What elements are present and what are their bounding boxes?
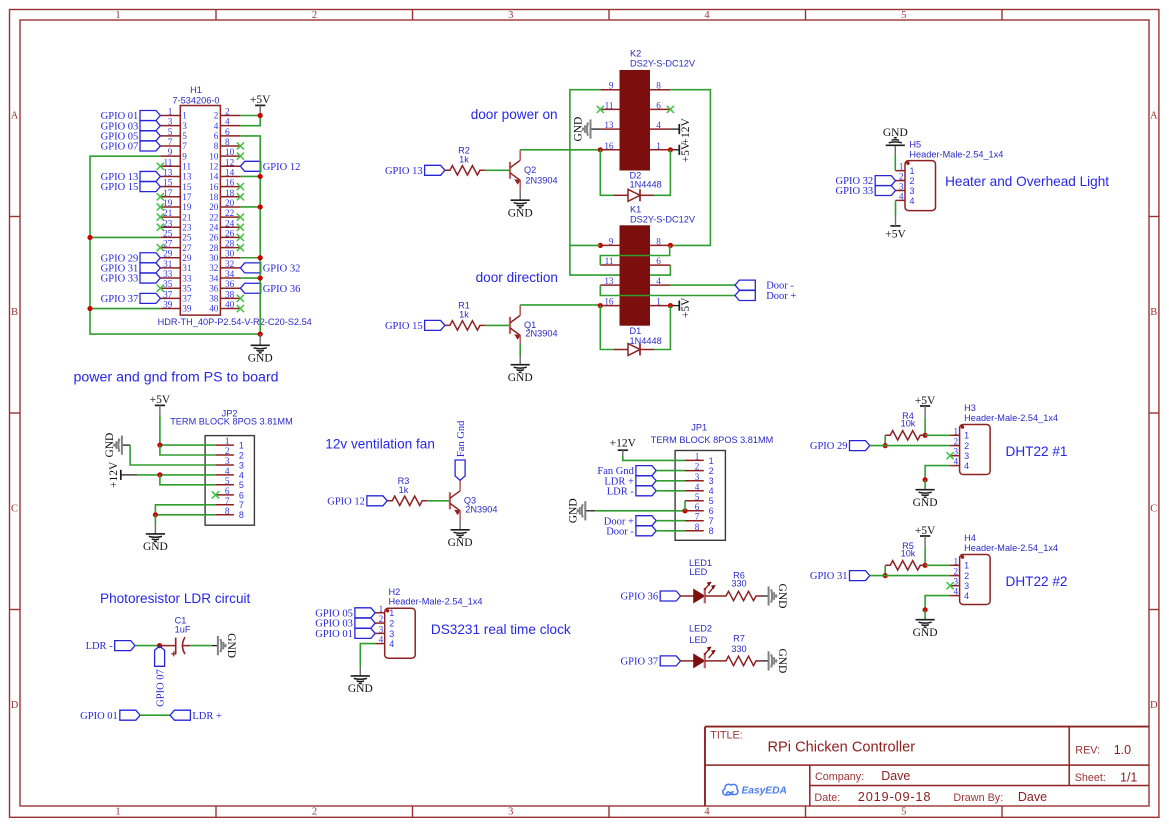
svg-text:2: 2 xyxy=(910,176,915,186)
K2 pin 13 xyxy=(600,128,619,130)
svg-text:26: 26 xyxy=(209,233,219,243)
svg-text:1N4448: 1N4448 xyxy=(630,336,662,346)
JP1 pin 1 xyxy=(685,459,704,461)
wire K1 pin4 to Door- xyxy=(670,284,735,286)
svg-text:Header-Male-2.54_1x4: Header-Male-2.54_1x4 xyxy=(964,413,1058,423)
net flag LDR + at JP1 xyxy=(636,476,656,486)
wire K1 pin13 to Door+ xyxy=(600,285,735,295)
svg-text:3: 3 xyxy=(379,624,384,634)
wire H5 pin4 to +5V xyxy=(895,200,897,215)
net flag GPIO 07 xyxy=(140,141,160,151)
svg-text:R7: R7 xyxy=(733,634,745,644)
connector H2 body xyxy=(385,608,416,658)
no-connect JP2 pin 6 xyxy=(212,491,219,498)
svg-text:8: 8 xyxy=(225,506,230,516)
junction ground H3 xyxy=(923,477,928,482)
svg-text:36: 36 xyxy=(225,279,235,289)
H1 pin 24 xyxy=(220,226,240,228)
wire R3 to Q3 base xyxy=(427,500,450,502)
svg-text:9: 9 xyxy=(182,151,187,161)
wire pin4 to ground xyxy=(925,466,950,480)
svg-text:3: 3 xyxy=(954,577,959,587)
svg-text:GND: GND xyxy=(448,537,473,549)
svg-text:LED2: LED2 xyxy=(689,624,712,634)
svg-text:2: 2 xyxy=(954,437,959,447)
JP2 pin 6 xyxy=(215,494,234,496)
svg-text:12: 12 xyxy=(209,162,219,172)
wire C1 to GND xyxy=(190,645,212,647)
wire GND to H5 pin1 xyxy=(894,155,896,171)
svg-text:330: 330 xyxy=(731,578,746,588)
H1 pin 29 xyxy=(160,257,180,259)
ground GND at R7 xyxy=(761,660,769,662)
svg-text:2: 2 xyxy=(389,619,394,629)
svg-text:+12V: +12V xyxy=(108,461,120,488)
svg-text:4: 4 xyxy=(954,457,959,467)
svg-text:19: 19 xyxy=(163,198,173,208)
svg-text:30: 30 xyxy=(209,253,219,263)
capacitor C1 xyxy=(160,645,176,647)
svg-text:1: 1 xyxy=(115,807,120,818)
svg-text:1k: 1k xyxy=(399,485,409,495)
svg-text:7: 7 xyxy=(239,500,244,510)
wire data to pin2 xyxy=(870,575,950,577)
no-connect H1 pin 22 xyxy=(237,214,244,221)
svg-text:8: 8 xyxy=(695,522,700,532)
svg-text:GPIO 36: GPIO 36 xyxy=(621,592,659,603)
svg-text:GPIO 15: GPIO 15 xyxy=(101,182,139,193)
H1 pin 36 xyxy=(220,287,240,289)
svg-text:4: 4 xyxy=(695,482,700,492)
wire K2 pin9 / K1 pin9 to K1 pin6 xyxy=(570,90,671,275)
no-connect H1 pin 8 xyxy=(237,142,244,149)
svg-text:Drawn By:: Drawn By: xyxy=(953,792,1003,804)
svg-text:4: 4 xyxy=(899,191,904,201)
svg-text:2: 2 xyxy=(709,466,714,476)
wire K1 pin9 to left rail xyxy=(570,244,600,246)
svg-text:9: 9 xyxy=(168,147,173,157)
svg-text:37: 37 xyxy=(182,294,192,304)
svg-text:power and gnd from PS to board: power and gnd from PS to board xyxy=(74,370,279,386)
svg-text:GND: GND xyxy=(248,353,273,365)
svg-text:GND: GND xyxy=(225,633,237,658)
title block frame xyxy=(705,727,1149,806)
no-connect H1 pin 40 xyxy=(237,305,244,312)
net flag GPIO 01 xyxy=(140,111,160,121)
resistor R4 xyxy=(885,431,925,440)
wire K1 pin16 to D1 anode xyxy=(600,306,614,350)
H1 pin 25 xyxy=(160,236,180,238)
net flag GPIO 29 xyxy=(850,441,870,451)
svg-text:4: 4 xyxy=(379,635,384,645)
svg-text:DHT22 #1: DHT22 #1 xyxy=(1006,444,1068,459)
svg-text:28: 28 xyxy=(225,239,235,249)
net flag Door - xyxy=(735,280,755,290)
junction K2 pin16 xyxy=(598,147,603,152)
LED LED2 xyxy=(681,660,694,662)
svg-text:1: 1 xyxy=(954,426,959,436)
H1 pin 40 xyxy=(220,308,240,310)
svg-text:14: 14 xyxy=(225,167,235,177)
svg-text:30: 30 xyxy=(225,249,235,259)
H3 pin 3 xyxy=(950,455,960,457)
svg-text:2: 2 xyxy=(214,111,219,121)
connector H5 body xyxy=(905,161,936,211)
svg-text:26: 26 xyxy=(225,228,235,238)
ground GND below H2 xyxy=(359,666,361,676)
svg-text:DHT22 #2: DHT22 #2 xyxy=(1006,574,1068,589)
wire +5V to H3 xyxy=(924,417,926,435)
svg-text:LED: LED xyxy=(689,567,707,577)
wire K2 pin8 to K1 pin8 xyxy=(670,90,710,246)
svg-text:1: 1 xyxy=(379,604,384,614)
svg-text:2: 2 xyxy=(695,462,700,472)
H1 pin 37 xyxy=(160,297,180,299)
JP1 pin 6 xyxy=(685,510,704,512)
H1 pin 35 xyxy=(160,287,180,289)
svg-text:LDR +: LDR + xyxy=(192,711,222,722)
connector H2 origin mark xyxy=(386,609,389,612)
svg-text:Photoresistor LDR circuit: Photoresistor LDR circuit xyxy=(100,591,251,606)
connector JP2 body xyxy=(205,436,254,526)
connector H1 body xyxy=(180,106,220,316)
svg-text:22: 22 xyxy=(209,212,219,222)
wire data to pin2 xyxy=(870,445,950,447)
svg-text:9: 9 xyxy=(609,81,614,91)
junction K1 pin16 xyxy=(598,303,603,308)
H3 pin 1 xyxy=(950,434,960,436)
wire R2 to Q2 base xyxy=(485,169,510,171)
wire Door- to JP1 pin8 xyxy=(656,530,685,532)
svg-text:1: 1 xyxy=(225,436,230,446)
svg-text:35: 35 xyxy=(182,283,192,293)
net flag GPIO 13 xyxy=(425,165,445,175)
svg-text:33: 33 xyxy=(182,273,192,283)
svg-text:A: A xyxy=(11,111,19,122)
svg-text:6: 6 xyxy=(214,131,219,141)
wire +5V to pin1 xyxy=(925,564,950,566)
svg-text:Door +: Door + xyxy=(766,291,796,302)
power +12V at K2 pin4 xyxy=(670,128,679,130)
junction K2 pin1 xyxy=(668,147,673,152)
H1 pin 34 xyxy=(220,277,240,279)
junction data line xyxy=(883,443,888,448)
wire +12V to JP1 pin1 xyxy=(623,455,685,460)
wire pullup to data xyxy=(884,435,886,445)
ground GND at Q3 xyxy=(459,520,461,530)
svg-text:38: 38 xyxy=(225,289,235,299)
H1 pin 6 xyxy=(220,135,240,137)
svg-text:16: 16 xyxy=(225,178,235,188)
svg-text:31: 31 xyxy=(182,263,192,273)
svg-text:+5V: +5V xyxy=(915,395,936,407)
svg-text:door direction: door direction xyxy=(476,270,558,285)
power +5V above JP2 xyxy=(155,404,165,406)
svg-text:3: 3 xyxy=(964,451,969,461)
H1 pin 32 xyxy=(220,267,240,269)
JP2 pin 8 xyxy=(215,514,234,516)
svg-text:29: 29 xyxy=(163,249,173,259)
H4 pin 1 xyxy=(950,564,960,566)
wire GND to JP1 pin6 xyxy=(595,510,685,512)
resistor R5 xyxy=(885,561,925,570)
resistor R3 xyxy=(387,496,427,505)
svg-text:5: 5 xyxy=(901,10,906,21)
svg-text:4: 4 xyxy=(964,461,969,471)
JP1 pin 7 xyxy=(685,520,704,522)
svg-text:20: 20 xyxy=(209,202,219,212)
svg-text:7: 7 xyxy=(225,496,230,506)
net flag Door + at JP1 xyxy=(636,516,656,526)
svg-text:4: 4 xyxy=(709,486,714,496)
svg-text:GPIO 37: GPIO 37 xyxy=(101,294,139,305)
svg-text:Date:: Date: xyxy=(814,792,840,804)
svg-text:13: 13 xyxy=(604,276,614,286)
svg-text:H2: H2 xyxy=(389,587,401,597)
H1 pin 2 xyxy=(220,115,240,117)
svg-text:25: 25 xyxy=(182,233,192,243)
junction GND rail pin 39 xyxy=(87,306,92,311)
svg-text:7: 7 xyxy=(182,141,187,151)
wire +5V to pin1 xyxy=(925,434,950,436)
svg-text:3: 3 xyxy=(168,117,173,127)
svg-text:31: 31 xyxy=(163,259,173,269)
svg-text:23: 23 xyxy=(163,218,173,228)
svg-text:GPIO 33: GPIO 33 xyxy=(836,186,874,197)
junction K1 pin9 xyxy=(598,243,603,248)
wire JP2 pins7-8 xyxy=(155,505,215,515)
svg-text:GPIO 12: GPIO 12 xyxy=(263,162,301,173)
svg-text:1: 1 xyxy=(910,166,915,176)
ground GND at Q2 xyxy=(519,189,521,200)
wire Q1 collector to K1 pin16 xyxy=(520,304,600,306)
relay K1 body xyxy=(620,225,651,325)
ground GND H3 xyxy=(916,489,935,491)
K2 pin 11 xyxy=(600,108,619,110)
H1 pin 5 xyxy=(160,135,180,137)
svg-text:2: 2 xyxy=(954,567,959,577)
no-connect H1 pin 18 xyxy=(237,193,244,200)
svg-text:2N3904: 2N3904 xyxy=(525,176,557,186)
H2 pin 2 xyxy=(375,622,385,624)
transistor Q2 xyxy=(509,162,511,179)
wire JP2 pin5 xyxy=(160,475,216,485)
svg-text:C: C xyxy=(11,504,18,515)
svg-text:8: 8 xyxy=(656,236,661,246)
svg-text:D: D xyxy=(1150,700,1158,711)
svg-text:GPIO 36: GPIO 36 xyxy=(263,284,301,295)
wire Door+ to JP1 pin7 xyxy=(656,520,685,522)
H1 pin 28 xyxy=(220,247,240,249)
H1 pin 8 xyxy=(220,145,240,147)
K1 pin 6 xyxy=(650,264,670,266)
junction JP2 +5V xyxy=(157,443,162,448)
net flag GPIO 05 xyxy=(355,608,375,618)
H1 pin 33 xyxy=(160,277,180,279)
ground GND below H1 xyxy=(259,334,261,345)
svg-text:16: 16 xyxy=(604,141,614,151)
ground GND left of JP2 xyxy=(122,444,130,446)
wire +12V to JP2 pin4 xyxy=(137,474,215,476)
JP2 pin 3 xyxy=(215,464,234,466)
svg-text:4: 4 xyxy=(954,587,959,597)
wire pin4 to ground xyxy=(925,596,950,610)
no-connect H1 pin 28 xyxy=(237,244,244,251)
wire GND to JP2 pin3 xyxy=(130,445,215,465)
svg-text:27: 27 xyxy=(182,243,192,253)
svg-text:6: 6 xyxy=(709,506,714,516)
K1 pin 1 xyxy=(650,305,670,307)
H1 pin 3 xyxy=(160,125,180,127)
svg-text:3: 3 xyxy=(239,460,244,470)
H1 pin 20 xyxy=(220,206,240,208)
svg-text:2: 2 xyxy=(239,450,244,460)
wire K2 pin16 to D2 anode xyxy=(600,150,614,196)
no-connect H1 pin 19 xyxy=(157,203,164,210)
svg-text:Dave: Dave xyxy=(1018,790,1047,804)
net flag LDR - at JP1 xyxy=(636,486,656,496)
no-connect H1 pin 10 xyxy=(237,153,244,160)
svg-text:+5V: +5V xyxy=(150,394,171,406)
H1 pin 19 xyxy=(160,206,180,208)
K1 pin 13 xyxy=(600,284,619,286)
svg-text:6: 6 xyxy=(656,100,661,110)
svg-text:8: 8 xyxy=(239,510,244,520)
H4 pin 4 xyxy=(950,595,960,597)
svg-text:4: 4 xyxy=(389,639,394,649)
net flag GPIO 37 xyxy=(140,293,160,303)
svg-text:38: 38 xyxy=(209,294,219,304)
svg-text:3: 3 xyxy=(182,121,187,131)
svg-text:3: 3 xyxy=(899,182,904,192)
K2 pin 6 xyxy=(650,108,670,110)
svg-text:LDR -: LDR - xyxy=(86,641,114,652)
K2 pin 4 xyxy=(650,128,670,130)
H1 pin 18 xyxy=(220,196,240,198)
svg-text:1: 1 xyxy=(964,431,969,441)
svg-text:7: 7 xyxy=(709,516,714,526)
ground GND above H5 xyxy=(886,144,905,146)
K2 pin 8 xyxy=(650,89,670,91)
net flag GPIO 01 xyxy=(355,628,375,638)
net flag GPIO 12 at fan xyxy=(367,496,387,506)
svg-text:3: 3 xyxy=(389,629,394,639)
svg-text:1: 1 xyxy=(115,10,120,21)
net flag GPIO 32 at H5 xyxy=(875,176,895,186)
H5 pin 2 xyxy=(896,180,906,182)
H1 pin 26 xyxy=(220,236,240,238)
svg-text:11: 11 xyxy=(182,162,191,172)
diode D2 xyxy=(614,194,628,196)
wire GND rail xyxy=(90,136,260,334)
net flag GPIO 12 xyxy=(240,161,260,171)
svg-text:7: 7 xyxy=(695,512,700,522)
svg-text:GND: GND xyxy=(883,127,908,139)
svg-text:1: 1 xyxy=(168,107,173,117)
svg-text:GPIO 13: GPIO 13 xyxy=(385,166,423,177)
svg-text:Heater and Overhead Light: Heater and Overhead Light xyxy=(945,174,1109,189)
svg-text:10k: 10k xyxy=(901,548,916,558)
svg-text:8: 8 xyxy=(656,81,661,91)
svg-text:7: 7 xyxy=(168,137,173,147)
svg-text:10: 10 xyxy=(225,147,235,157)
svg-text:5: 5 xyxy=(709,496,714,506)
H1 pin 31 xyxy=(160,267,180,269)
svg-text:39: 39 xyxy=(182,304,192,314)
junction GND rail pin 34 xyxy=(258,275,263,280)
svg-text:GPIO 33: GPIO 33 xyxy=(101,274,139,285)
no-connect K2 pin 11 xyxy=(597,106,604,113)
svg-text:1k: 1k xyxy=(459,155,469,165)
no-connect H1 pin 26 xyxy=(237,234,244,241)
svg-text:+5V: +5V xyxy=(250,94,271,106)
junction K1 pin8 xyxy=(668,243,673,248)
svg-text:7-534206-0: 7-534206-0 xyxy=(173,95,220,105)
svg-text:24: 24 xyxy=(209,222,219,232)
connector H3 body xyxy=(960,425,991,475)
no-connect H4 pin 3 xyxy=(947,582,954,589)
svg-text:5: 5 xyxy=(901,807,906,818)
junction ground H4 xyxy=(923,607,928,612)
svg-text:K2: K2 xyxy=(630,49,641,59)
svg-text:GND: GND xyxy=(143,541,168,553)
connector JP1 body xyxy=(675,451,725,541)
K1 pin 8 xyxy=(650,244,670,246)
wire GPIO01 to LDR+ xyxy=(140,714,170,716)
junction GND rail bottom xyxy=(258,332,263,337)
wire Q2 collector to K2 pin16 xyxy=(520,149,600,151)
svg-text:H1: H1 xyxy=(190,85,202,95)
H1 pin 4 xyxy=(220,125,240,127)
svg-text:32: 32 xyxy=(209,263,219,273)
svg-text:1: 1 xyxy=(899,162,904,172)
ground GND below JP2 xyxy=(154,525,156,534)
ground GND at R6 xyxy=(761,595,769,597)
svg-text:2: 2 xyxy=(379,614,384,624)
svg-text:39: 39 xyxy=(163,300,173,310)
svg-text:4: 4 xyxy=(656,276,661,286)
svg-text:GND: GND xyxy=(913,627,938,639)
svg-text:22: 22 xyxy=(225,208,235,218)
svg-text:GPIO 01: GPIO 01 xyxy=(315,629,353,640)
svg-text:2: 2 xyxy=(964,441,969,451)
svg-text:Company:: Company: xyxy=(815,771,864,783)
svg-text:D1: D1 xyxy=(630,326,642,336)
svg-text:5: 5 xyxy=(225,476,230,486)
H1 pin 30 xyxy=(220,257,240,259)
svg-text:1: 1 xyxy=(964,561,969,571)
svg-text:1: 1 xyxy=(239,441,244,451)
diode D1 xyxy=(614,349,628,351)
junction GND rail pin 14 xyxy=(258,174,263,179)
K1 pin 9 xyxy=(600,244,619,246)
svg-text:GPIO 07: GPIO 07 xyxy=(101,142,139,153)
svg-text:10k: 10k xyxy=(901,418,916,428)
svg-text:3: 3 xyxy=(508,807,513,818)
svg-text:GND: GND xyxy=(776,648,788,673)
svg-text:6: 6 xyxy=(656,256,661,266)
net flag Fan Gnd at Q3 xyxy=(455,460,465,480)
resistor R1 xyxy=(445,321,485,330)
connector H3 origin mark xyxy=(961,425,964,428)
svg-text:DS2Y-S-DC12V: DS2Y-S-DC12V xyxy=(630,214,696,224)
svg-text:3: 3 xyxy=(709,476,714,486)
svg-text:GND: GND xyxy=(913,497,938,509)
net flag Door + xyxy=(735,291,755,301)
svg-text:32: 32 xyxy=(225,259,235,269)
JP1 pin 8 xyxy=(685,530,704,532)
net flag GPIO 36 xyxy=(240,283,260,293)
